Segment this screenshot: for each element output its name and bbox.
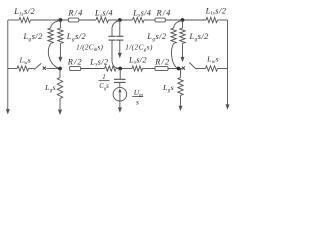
inductor Lg*s/2 right-pair-left	[171, 28, 176, 44]
resistor R/2 left	[70, 67, 81, 71]
svg-text:Ls​s/4: Ls​s/4	[132, 8, 151, 18]
svg-text:R/4: R/4	[156, 9, 172, 18]
svg-text:Lg​s/2: Lg​s/2	[22, 32, 42, 42]
switch blade right	[189, 63, 196, 70]
node center mid	[118, 67, 122, 71]
wire right edge	[227, 20, 229, 105]
svg-text:1/(2Cm​s): 1/(2Cm​s)	[76, 44, 103, 53]
svg-text:1/(2Cg​s): 1/(2Cg​s)	[125, 44, 153, 53]
svg-text:s: s	[136, 97, 139, 106]
inductor Lw*s left	[17, 66, 29, 71]
ground arrow right edge	[226, 104, 230, 109]
resistor R/4 left	[68, 18, 78, 22]
ground arrow right lower	[179, 106, 183, 111]
arrow inside source	[119, 92, 121, 101]
wire top left	[8, 19, 19, 21]
wire node down	[180, 69, 182, 78]
switch blade left	[34, 63, 41, 69]
inductor Ls*s/2 left	[105, 66, 117, 71]
wire dot3 down	[182, 20, 184, 28]
wire	[218, 19, 228, 21]
node left mid	[58, 67, 62, 71]
svg-text:R/4: R/4	[67, 9, 83, 18]
svg-text:Ls​s/2: Ls​s/2	[89, 57, 108, 67]
wire mid left	[8, 68, 17, 70]
wire	[81, 68, 105, 70]
svg-text:1: 1	[102, 74, 105, 81]
svg-text:R/2: R/2	[67, 58, 83, 67]
wire dot1 down	[59, 20, 61, 28]
source circle	[113, 87, 127, 101]
wire dot2 down to right cap	[119, 20, 121, 36]
wire	[109, 19, 133, 21]
capacitor 1/(2Cm*s)	[108, 35, 115, 37]
svg-text:Lls​s/2: Lls​s/2	[205, 6, 227, 16]
wire left-pair-right down	[59, 44, 61, 58]
wire	[79, 19, 96, 21]
arrow into left mid node	[58, 57, 62, 62]
inductor Ls*s/4 right	[133, 17, 145, 22]
svg-text:Lg​s/2: Lg​s/2	[146, 32, 166, 42]
wire hop arc dot3 to right shunt pair	[174, 21, 182, 28]
inductor Lw*s right	[206, 66, 218, 71]
switch contact cross left	[43, 67, 46, 70]
ground arrow left lower	[58, 110, 62, 115]
wire right cap down	[119, 40, 121, 53]
wire hop arc dot1 to left shunt pair	[51, 21, 60, 28]
node dot1	[59, 18, 63, 22]
svg-text:Ls​s/4: Ls​s/4	[94, 9, 113, 19]
node dot2 center	[118, 18, 122, 22]
inductor Lg*s/2 left-pair-right	[58, 28, 63, 44]
wire	[180, 96, 182, 106]
wire	[31, 19, 69, 21]
arrow toward center node	[118, 53, 122, 58]
inductor Lls*s/2 top-right	[206, 17, 218, 22]
svg-text:Lg​s/2: Lg​s/2	[66, 32, 86, 42]
wire	[47, 68, 61, 70]
ground arrow source	[118, 107, 122, 112]
node dot3	[181, 18, 185, 22]
inductor Lg*s left lower	[57, 78, 62, 99]
svg-text:Lg​s/2: Lg​s/2	[189, 32, 209, 42]
svg-text:Ls​s/2: Ls​s/2	[128, 55, 147, 65]
arrow above right mid node	[181, 57, 185, 62]
wire arc-end down to left cap	[111, 28, 113, 36]
inductor Ls*s/4 left	[96, 17, 109, 22]
inductor Lg*s/2 right-pair-right	[180, 28, 185, 44]
wire	[218, 68, 228, 70]
wire left edge	[7, 20, 9, 109]
wire node down	[59, 69, 61, 78]
wire right-pair-right down	[182, 44, 184, 58]
capacitor 1/(2Cg*s)	[116, 35, 123, 37]
wire	[59, 99, 61, 110]
wire	[168, 68, 182, 70]
resistor R/2 right	[155, 67, 168, 71]
wire center node down	[119, 69, 121, 80]
inductor Lls*s/2 top-left	[19, 17, 31, 22]
wire curve left-pair-left to node	[48, 44, 58, 69]
wire	[29, 68, 35, 70]
wire	[165, 19, 206, 21]
svg-text:Lls​s/2: Lls​s/2	[13, 7, 35, 17]
switch contact cross right	[182, 67, 185, 70]
wire	[196, 68, 205, 70]
inductor Lg*s right lower	[178, 78, 183, 96]
wire	[119, 82, 121, 87]
wire left cap down curve to center node	[112, 40, 119, 68]
ground arrow left edge	[6, 109, 10, 114]
inductor Ls*s/2 right	[132, 66, 143, 71]
wire	[143, 68, 156, 70]
wire hop arc dot2 to center caps	[112, 21, 119, 28]
svg-text:R/2: R/2	[154, 57, 170, 66]
node right mid	[177, 67, 181, 71]
wire	[119, 101, 121, 108]
wire curve right-pair-left to node	[171, 44, 176, 69]
wire	[116, 68, 132, 70]
capacitor Cg bottom	[114, 78, 126, 80]
resistor R/4 right	[155, 18, 165, 22]
inductor Lg*s/2 left-pair-left	[48, 28, 53, 44]
wire	[144, 19, 155, 21]
